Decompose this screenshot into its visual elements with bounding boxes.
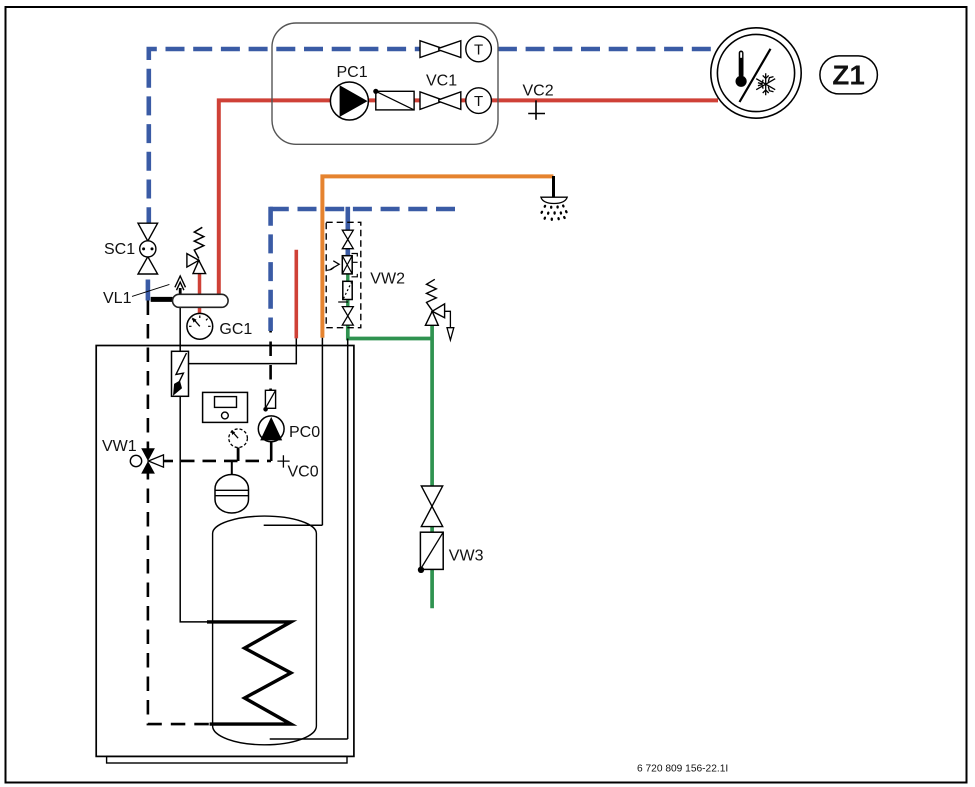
svg-text:PC0: PC0 — [289, 424, 320, 441]
VW2 metering device (square with X) — [342, 256, 352, 274]
check valve above PC0 — [265, 390, 275, 408]
zone label Z1 — [820, 56, 878, 94]
three-way valve VW1 — [130, 455, 141, 466]
svg-text:T: T — [474, 93, 483, 110]
snowflake icon — [756, 73, 775, 95]
valve VC1 — [420, 91, 461, 110]
temperature sensor T (bottom) — [466, 88, 492, 114]
wire: black dashed mixing line from VW1 to VC0 — [173, 460, 271, 463]
wire: orange DHW hot water line to shower — [322, 176, 553, 337]
pipe: hot water pipe from tank top — [321, 338, 323, 526]
heat exchanger coil in tank — [207, 622, 291, 724]
outdoor unit (heat pump) symbol — [711, 28, 801, 118]
storage unit plinth — [107, 756, 347, 763]
temperature sensor T (top) — [466, 36, 492, 62]
VW2 shutoff valve top — [342, 230, 353, 239]
shower symbol — [552, 176, 555, 197]
thermometer icon — [739, 51, 744, 78]
check valve after PC1 — [376, 91, 414, 110]
svg-text:6 720 809 156-22.1I: 6 720 809 156-22.1I — [637, 764, 728, 775]
wire: green stubs inside VW2 group — [346, 274, 349, 307]
svg-text:PC1: PC1 — [337, 64, 368, 81]
svg-text:VL1: VL1 — [103, 290, 132, 307]
wire: green cold water supply line — [348, 325, 432, 608]
pump PC1 — [330, 82, 368, 120]
shutoff valve above VW3 — [421, 486, 442, 506]
safety valve left (heating circuit) — [194, 227, 204, 258]
VW2 shutoff valve bottom — [342, 307, 353, 316]
VW2 group dashed border — [326, 222, 361, 327]
check valve VW3 — [420, 532, 443, 569]
safety valve right (potable water) — [427, 279, 437, 310]
VW2 filter/strainer — [343, 281, 352, 299]
wire: red flow line from heat pump to PC1 circuit — [219, 100, 718, 294]
svg-text:VW2: VW2 — [370, 271, 405, 288]
wire: blue stub below SC1 — [146, 280, 151, 301]
wire: black dashed DHW circulation inside unit — [269, 331, 272, 390]
thick pipe stub to VL1 — [151, 297, 173, 302]
VW2 actuator arrow — [327, 267, 334, 271]
gauge GC1 — [187, 313, 213, 339]
svg-text:VW1: VW1 — [102, 438, 137, 455]
pipe: hot water outlet from tank dome — [264, 524, 323, 526]
pump PC0 — [270, 442, 273, 461]
pipe: heater top connection line — [189, 338, 297, 363]
svg-text:VC2: VC2 — [523, 83, 554, 100]
air separator vessel VL1 — [173, 294, 229, 307]
svg-text:VC0: VC0 — [288, 464, 319, 481]
valve SC1 — [138, 223, 158, 241]
svg-text:VW3: VW3 — [449, 548, 484, 565]
sensor marker VC0 — [277, 455, 289, 467]
electric heater element — [172, 351, 189, 396]
storage unit outer box — [96, 346, 354, 757]
svg-text:T: T — [474, 42, 483, 59]
pipe: cold water inlet at tank bottom — [270, 738, 348, 740]
wire: black dashed solar/brine line from SC1 down into unit and to coil — [148, 301, 210, 725]
wire: red stub below VL1 vessel to gauge GC1 — [198, 307, 202, 314]
gauge (manometer) in unit — [237, 448, 240, 462]
tank (DHW cylinder) — [213, 516, 317, 745]
air vent on VL1 vessel — [179, 288, 182, 294]
valve on blue line in top box — [420, 40, 461, 58]
wire: red return stub into storage unit — [294, 250, 298, 339]
wire: blue solid stub into VW2 — [345, 207, 350, 256]
pipe: heater pipe from VL1 vessel down to coil — [180, 307, 207, 622]
expansion vessel — [231, 461, 233, 475]
slash — [740, 49, 771, 102]
wire: blue dashed DHW circulation line — [269, 207, 455, 212]
svg-text:VC1: VC1 — [426, 73, 457, 90]
svg-text:Z1: Z1 — [832, 60, 865, 91]
pipe: cold water pipe down to tank bottom — [347, 339, 349, 740]
wire: blue dashed flow line (cold/return) top — [149, 49, 711, 223]
wire: red stub safety valve to VL1 vessel — [198, 274, 202, 295]
svg-text:GC1: GC1 — [219, 321, 252, 338]
top circuit rounded box — [272, 23, 498, 144]
control panel — [203, 392, 248, 422]
svg-text:SC1: SC1 — [104, 241, 135, 258]
